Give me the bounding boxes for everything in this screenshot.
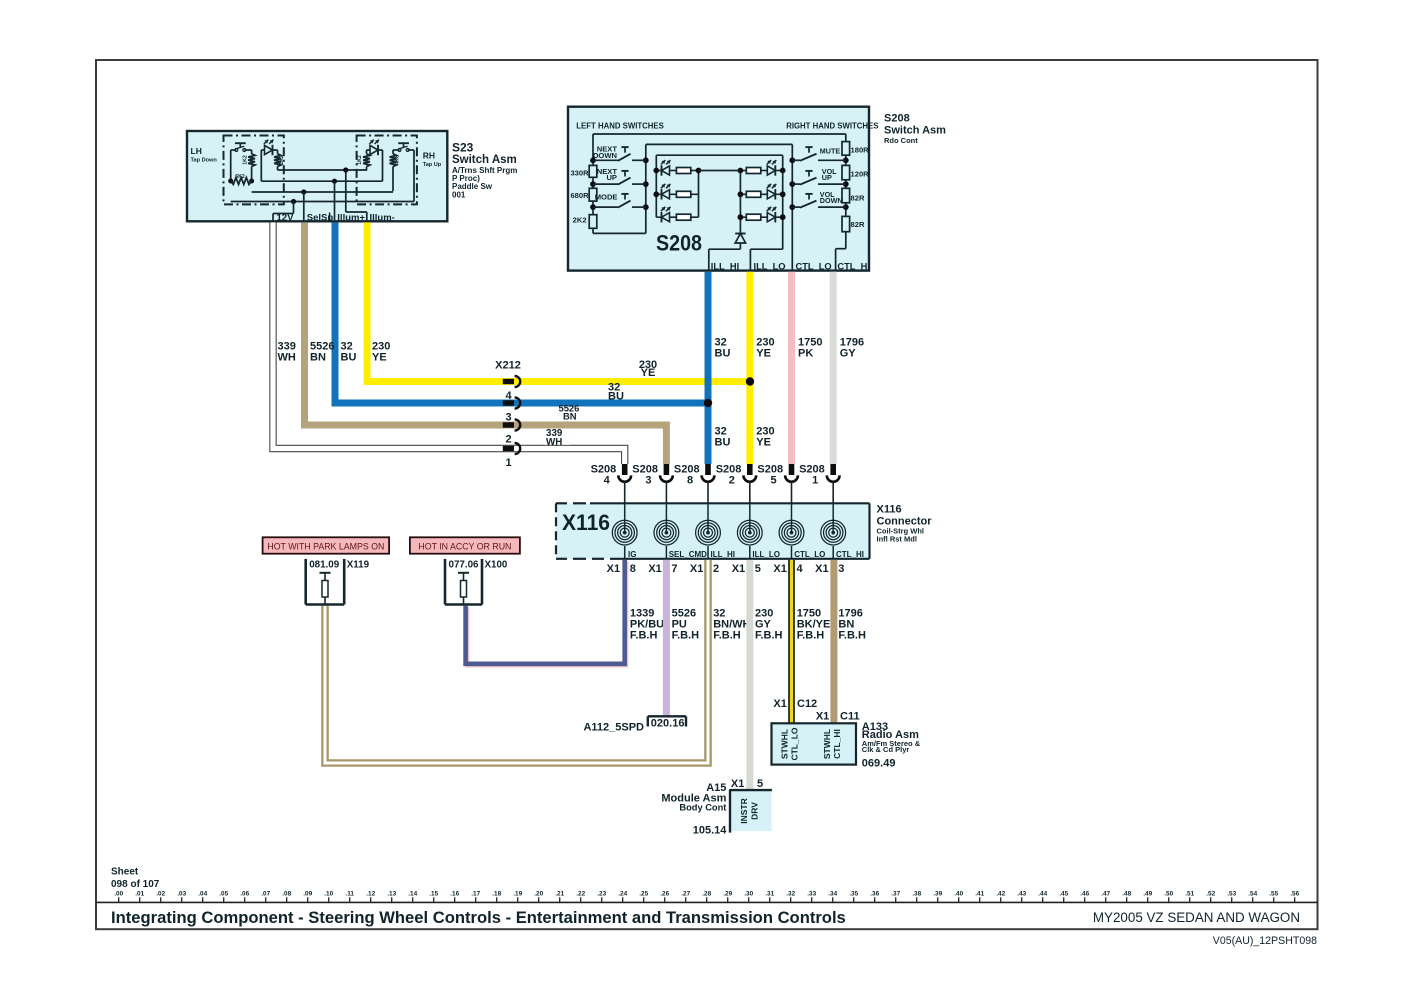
svg-text:.55: .55 — [1269, 891, 1278, 898]
svg-text:.45: .45 — [1059, 891, 1068, 898]
svg-text:S208: S208 — [799, 463, 825, 475]
svg-text:CTL_HI: CTL_HI — [836, 550, 864, 559]
svg-text:.30: .30 — [744, 891, 753, 898]
svg-text:S23: S23 — [452, 141, 474, 155]
svg-text:.20: .20 — [534, 891, 543, 898]
svg-text:.35: .35 — [849, 891, 858, 898]
svg-text:.53: .53 — [1227, 891, 1236, 898]
svg-text:.15: .15 — [429, 891, 438, 898]
svg-text:4: 4 — [797, 563, 804, 575]
svg-text:105.14: 105.14 — [693, 825, 728, 837]
svg-text:.24: .24 — [618, 891, 627, 898]
svg-text:2: 2 — [505, 434, 511, 446]
svg-text:Infl Rst Mdl: Infl Rst Mdl — [877, 535, 917, 544]
svg-text:5: 5 — [757, 778, 763, 790]
svg-text:.31: .31 — [765, 891, 774, 898]
svg-text:4: 4 — [604, 475, 611, 487]
svg-text:S208: S208 — [656, 231, 702, 256]
svg-text:IG: IG — [628, 550, 636, 559]
svg-text:F.B.H: F.B.H — [630, 630, 658, 642]
svg-text:X1: X1 — [732, 563, 745, 575]
svg-text:ILL_LO: ILL_LO — [754, 261, 786, 271]
svg-text:.02: .02 — [156, 891, 165, 898]
svg-text:A112_5SPD: A112_5SPD — [583, 721, 644, 733]
svg-text:LH: LH — [191, 146, 202, 156]
svg-text:.51: .51 — [1185, 891, 1194, 898]
svg-text:8: 8 — [630, 563, 636, 575]
svg-text:069.49: 069.49 — [862, 757, 896, 769]
svg-text:.29: .29 — [723, 891, 732, 898]
svg-text:CTL_LO: CTL_LO — [796, 261, 832, 271]
svg-text:.00: .00 — [114, 891, 123, 898]
svg-text:Sheet: Sheet — [111, 867, 139, 878]
svg-text:.34: .34 — [828, 891, 837, 898]
svg-text:1: 1 — [812, 475, 818, 487]
svg-text:.05: .05 — [219, 891, 228, 898]
svg-text:S208: S208 — [716, 463, 742, 475]
svg-text:ILL_HI: ILL_HI — [711, 550, 735, 559]
svg-text:F.B.H: F.B.H — [672, 630, 700, 642]
svg-text:.04: .04 — [198, 891, 207, 898]
svg-text:SEL_CMD: SEL_CMD — [669, 550, 707, 559]
svg-text:X1: X1 — [815, 563, 828, 575]
svg-text:.56: .56 — [1290, 891, 1299, 898]
svg-text:.09: .09 — [303, 891, 312, 898]
svg-text:180R: 180R — [851, 146, 870, 155]
svg-text:CTL_LO: CTL_LO — [790, 727, 800, 760]
svg-text:.07: .07 — [261, 891, 270, 898]
svg-text:X1: X1 — [731, 778, 744, 790]
svg-text:Integrating Component - Steeri: Integrating Component - Steering Wheel C… — [111, 908, 846, 927]
svg-text:C11: C11 — [840, 711, 860, 723]
svg-text:BN: BN — [563, 411, 577, 422]
svg-text:1K2: 1K2 — [357, 155, 363, 165]
svg-text:C12: C12 — [797, 698, 817, 710]
svg-text:.40: .40 — [954, 891, 963, 898]
svg-text:.28: .28 — [702, 891, 711, 898]
svg-text:.38: .38 — [912, 891, 921, 898]
svg-text:X1: X1 — [816, 711, 829, 723]
svg-text:.25: .25 — [639, 891, 648, 898]
svg-text:7: 7 — [671, 563, 677, 575]
svg-text:X116: X116 — [562, 510, 610, 535]
svg-text:.41: .41 — [975, 891, 984, 898]
svg-text:82R: 82R — [851, 193, 865, 202]
svg-text:UP: UP — [822, 173, 832, 182]
svg-text:4K8: 4K8 — [395, 155, 401, 165]
svg-text:WH: WH — [278, 352, 296, 364]
svg-text:8: 8 — [687, 475, 693, 487]
svg-text:X119: X119 — [347, 559, 370, 570]
svg-text:X1: X1 — [773, 563, 786, 575]
svg-text:081.09: 081.09 — [309, 559, 340, 570]
svg-text:.10: .10 — [324, 891, 333, 898]
svg-text:001: 001 — [452, 190, 466, 199]
svg-text:098 of 107: 098 of 107 — [111, 879, 160, 890]
svg-text:Switch Asm: Switch Asm — [884, 125, 946, 137]
svg-text:DOWN: DOWN — [593, 151, 617, 160]
svg-text:RIGHT HAND SWITCHES: RIGHT HAND SWITCHES — [786, 122, 878, 131]
svg-text:.03: .03 — [177, 891, 186, 898]
svg-text:.12: .12 — [366, 891, 375, 898]
svg-text:077.06: 077.06 — [449, 559, 480, 570]
svg-text:F.B.H: F.B.H — [797, 630, 825, 642]
svg-text:BU: BU — [715, 437, 731, 449]
svg-text:5: 5 — [755, 563, 761, 575]
svg-text:V05(AU)_12PSHT098: V05(AU)_12PSHT098 — [1213, 935, 1317, 947]
svg-text:S208: S208 — [757, 463, 783, 475]
svg-text:X1: X1 — [648, 563, 661, 575]
svg-text:.33: .33 — [807, 891, 816, 898]
svg-text:.19: .19 — [513, 891, 522, 898]
svg-text:X212: X212 — [495, 360, 521, 372]
svg-text:.37: .37 — [891, 891, 900, 898]
svg-text:1: 1 — [505, 457, 511, 469]
svg-text:.50: .50 — [1164, 891, 1173, 898]
svg-text:.49: .49 — [1143, 891, 1152, 898]
svg-text:BU: BU — [608, 391, 624, 403]
svg-text:.17: .17 — [471, 891, 480, 898]
svg-text:.36: .36 — [870, 891, 879, 898]
svg-text:S208: S208 — [884, 113, 910, 125]
svg-text:YE: YE — [756, 437, 771, 449]
svg-text:WH: WH — [546, 437, 562, 448]
svg-text:6K2: 6K2 — [235, 174, 245, 180]
svg-text:RH: RH — [423, 151, 435, 161]
svg-text:UP: UP — [606, 173, 617, 182]
svg-text:120R: 120R — [851, 169, 870, 178]
svg-text:STWHL: STWHL — [780, 729, 790, 759]
svg-text:82R: 82R — [851, 220, 865, 229]
svg-text:X1: X1 — [690, 563, 703, 575]
svg-text:680R: 680R — [570, 191, 589, 200]
svg-text:.01: .01 — [135, 891, 144, 898]
svg-text:X116: X116 — [877, 504, 902, 516]
svg-text:Rdo Cont: Rdo Cont — [884, 136, 918, 145]
svg-text:ILL_LO: ILL_LO — [752, 550, 780, 559]
svg-text:HOT IN ACCY OR RUN: HOT IN ACCY OR RUN — [418, 542, 511, 552]
svg-text:.54: .54 — [1248, 891, 1257, 898]
svg-text:S208: S208 — [674, 463, 700, 475]
svg-text:.08: .08 — [282, 891, 291, 898]
svg-text:Body Cont: Body Cont — [679, 803, 726, 813]
svg-text:SelSp: SelSp — [307, 213, 334, 224]
svg-text:.26: .26 — [660, 891, 669, 898]
svg-text:F.B.H: F.B.H — [755, 630, 783, 642]
svg-text:.11: .11 — [345, 891, 354, 898]
svg-text:MY2005 VZ SEDAN AND WAGON: MY2005 VZ SEDAN AND WAGON — [1093, 910, 1300, 925]
svg-text:.22: .22 — [576, 891, 585, 898]
svg-text:3: 3 — [645, 475, 651, 487]
svg-text:.42: .42 — [996, 891, 1005, 898]
svg-text:Tap Down: Tap Down — [191, 158, 218, 164]
svg-text:.06: .06 — [240, 891, 249, 898]
svg-text:F.B.H: F.B.H — [838, 630, 866, 642]
svg-text:DOWN: DOWN — [820, 196, 843, 205]
svg-text:1K2: 1K2 — [279, 155, 285, 165]
svg-text:X1: X1 — [607, 563, 620, 575]
svg-text:INSTR: INSTR — [739, 798, 749, 824]
svg-text:CTL_HI: CTL_HI — [832, 729, 842, 759]
svg-text:.46: .46 — [1080, 891, 1089, 898]
svg-text:.47: .47 — [1101, 891, 1110, 898]
svg-text:020.16: 020.16 — [651, 717, 685, 729]
svg-text:Clk & Cd Plyr: Clk & Cd Plyr — [862, 745, 910, 754]
svg-text:3: 3 — [838, 563, 844, 575]
svg-text:GY: GY — [840, 348, 857, 360]
svg-text:Illum-: Illum- — [370, 213, 395, 224]
svg-text:X1: X1 — [773, 698, 786, 710]
svg-text:.44: .44 — [1038, 891, 1047, 898]
svg-text:ILL_HI: ILL_HI — [711, 261, 739, 271]
svg-text:.32: .32 — [786, 891, 795, 898]
svg-text:STWHL: STWHL — [822, 729, 832, 759]
svg-text:MUTE: MUTE — [820, 146, 841, 155]
svg-text:MODE: MODE — [595, 193, 618, 202]
svg-text:CTL_LO: CTL_LO — [794, 550, 825, 559]
svg-text:.23: .23 — [597, 891, 606, 898]
svg-text:.16: .16 — [450, 891, 459, 898]
svg-text:BU: BU — [341, 352, 357, 364]
svg-text:YE: YE — [372, 352, 387, 364]
svg-text:DRV: DRV — [750, 802, 760, 820]
svg-text:Switch Asm: Switch Asm — [452, 154, 517, 166]
svg-text:S208: S208 — [632, 463, 658, 475]
svg-text:F.B.H: F.B.H — [713, 630, 741, 642]
svg-text:.39: .39 — [933, 891, 942, 898]
svg-text:S208: S208 — [591, 463, 617, 475]
svg-text:2: 2 — [713, 563, 719, 575]
svg-text:.43: .43 — [1017, 891, 1026, 898]
svg-text:Illum+: Illum+ — [337, 213, 365, 224]
svg-text:5: 5 — [770, 475, 776, 487]
svg-text:BN: BN — [310, 352, 326, 364]
svg-text:.21: .21 — [555, 891, 564, 898]
svg-text:12V: 12V — [277, 213, 295, 224]
svg-text:Tap Up: Tap Up — [423, 162, 442, 168]
svg-text:CTL_HI: CTL_HI — [837, 261, 870, 271]
svg-text:YE: YE — [641, 367, 656, 379]
svg-text:.18: .18 — [492, 891, 501, 898]
svg-text:BU: BU — [715, 348, 731, 360]
svg-text:YE: YE — [756, 348, 771, 360]
svg-text:X100: X100 — [485, 559, 508, 570]
svg-text:LEFT HAND SWITCHES: LEFT HAND SWITCHES — [576, 122, 664, 131]
svg-text:.14: .14 — [408, 891, 417, 898]
svg-text:HOT WITH PARK LAMPS ON: HOT WITH PARK LAMPS ON — [267, 542, 384, 552]
svg-text:PK: PK — [798, 348, 813, 360]
svg-text:2K2: 2K2 — [573, 216, 587, 225]
svg-text:.13: .13 — [387, 891, 396, 898]
svg-text:1K2: 1K2 — [242, 155, 248, 165]
svg-text:2: 2 — [729, 475, 735, 487]
svg-text:.48: .48 — [1122, 891, 1131, 898]
svg-text:.27: .27 — [681, 891, 690, 898]
svg-text:330R: 330R — [570, 168, 589, 177]
svg-text:.52: .52 — [1206, 891, 1215, 898]
svg-text:3: 3 — [505, 412, 511, 424]
svg-text:4: 4 — [505, 390, 512, 402]
